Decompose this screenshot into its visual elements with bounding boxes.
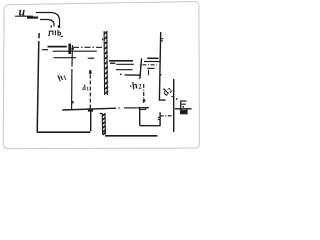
- ticks left of right wall: [158, 117, 160, 119]
- outlet right wall: [159, 112, 161, 126]
- valve assembly: [176, 98, 178, 100]
- short dash: [147, 67, 154, 69]
- dash of continuation: [124, 107, 138, 109]
- right tank right wall (upper): [140, 58, 142, 79]
- underline of u (thick): [27, 17, 38, 19]
- dash-dot row: [143, 64, 157, 66]
- ticks on piezometer wall: [161, 39, 163, 41]
- hatched bar (lower outlet pipe right wall): [100, 113, 106, 135]
- surface second line (long): [53, 50, 97, 52]
- small step under line: [139, 108, 145, 110]
- small stub below: [148, 70, 150, 76]
- frame border: [3, 1, 199, 148]
- dash-dot line to valve: [160, 115, 173, 117]
- orifice tick on pipe: [72, 101, 74, 103]
- inflow pipe bottom wall: [40, 20, 54, 27]
- flange bar at its top: [88, 109, 93, 112]
- left tank left wall: [37, 41, 39, 132]
- left tank left wall (upper dash): [38, 33, 40, 38]
- surface short dash lower right: [88, 57, 95, 59]
- right tank outlet: left wall: [139, 108, 141, 126]
- internal vertical pipe line: [71, 45, 74, 110]
- inflow pipe top wall: [36, 13, 60, 29]
- dot of dash-dot continuation: [118, 107, 119, 109]
- surface third line: [53, 57, 76, 59]
- hatched partition wall (upper): [103, 31, 109, 95]
- second line: [116, 63, 134, 65]
- underline of u (thin): [15, 15, 33, 17]
- floor start dot: [120, 74, 122, 76]
- thick tick at its top: [89, 70, 91, 74]
- junction dot: [143, 99, 146, 102]
- dash below: [110, 62, 115, 64]
- long bottom line (inner floor): [62, 108, 116, 110]
- main right vertical line: [173, 79, 175, 132]
- lower channel floor right part: [105, 135, 157, 137]
- right tank floor: [125, 74, 141, 76]
- third line: [116, 69, 133, 71]
- water surface left chamber: main line: [48, 46, 67, 48]
- dash-dot surface line right of stub: [73, 46, 102, 48]
- outlet bottom: [140, 125, 160, 127]
- piezometer water surface main: [147, 57, 158, 59]
- thick stub (pipe mouth): [68, 44, 71, 55]
- vertical dash-dot centerline: [143, 84, 145, 103]
- water surface right tank: main line: [109, 60, 133, 62]
- splash scribble under pipe outlet: [50, 25, 52, 27]
- dashed vertical (hidden line): [89, 75, 91, 111]
- piezometer right wall with foot: [159, 32, 165, 100]
- outlet pipe left wall: [90, 111, 92, 132]
- tick on wall: [140, 64, 142, 66]
- solid right part: [138, 107, 149, 109]
- second line: [144, 61, 160, 63]
- tick left of it: [172, 96, 174, 98]
- dot left of h2: [130, 85, 132, 87]
- surface dash near wall: [42, 49, 48, 51]
- small blob right of stub: [71, 48, 74, 50]
- left tank floor: [37, 131, 90, 133]
